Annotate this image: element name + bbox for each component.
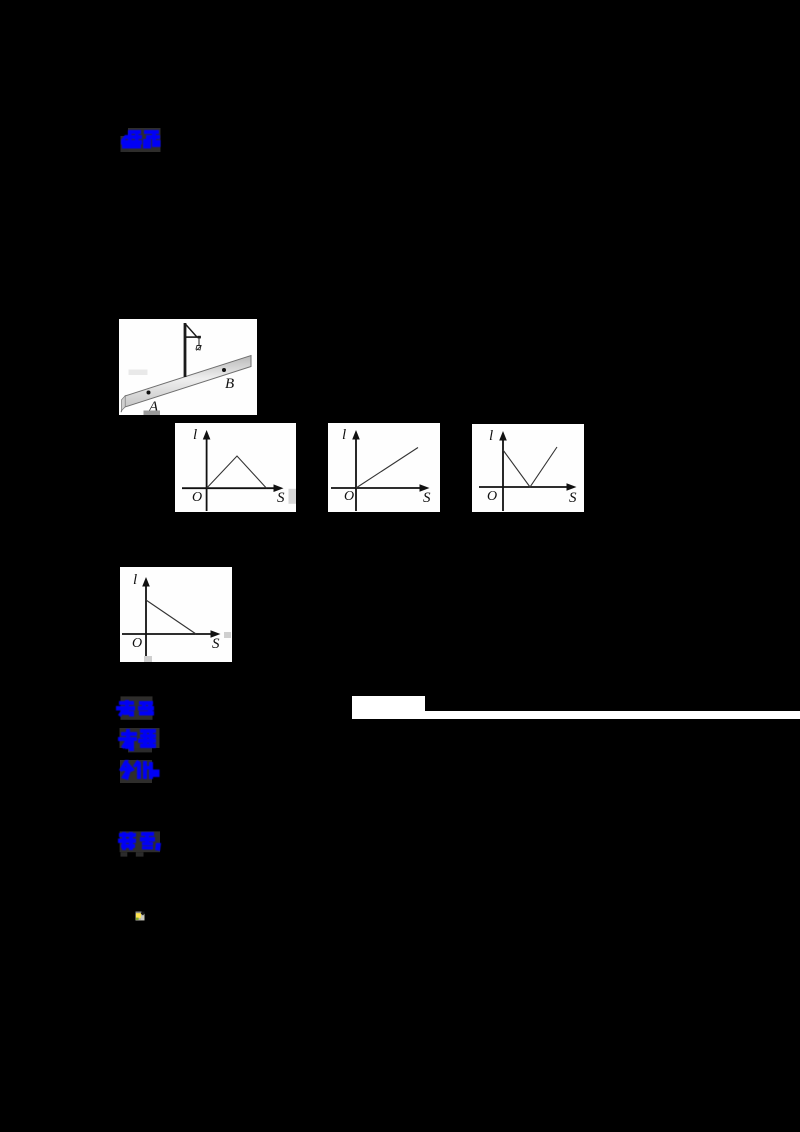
svg-text:O: O [344,489,354,504]
blue label 解答: [113,826,165,860]
graph A: triangle l-S graph [175,423,296,512]
svg-text:O: O [132,636,142,651]
figure: pole with hanging plumb on inclined plank, points A and B [119,319,257,415]
svg-text:l: l [489,428,493,444]
white background of figure [119,319,257,415]
hook/plumb with a label [196,346,201,351]
curve: V shape [503,447,557,487]
comma [155,843,161,851]
graph C: V-shaped l-S graph [472,424,584,512]
arm [186,336,201,338]
pole [184,323,187,377]
white answer underline strip [424,711,800,719]
gray tab below figure [144,411,161,416]
svg-text:l: l [133,572,137,588]
tiny broken-image icon [135,911,145,921]
svg-text:B: B [225,376,234,392]
gray nick right [289,489,297,504]
dot B [222,368,226,372]
blue label 分析: [113,755,165,787]
gray nick bottom [144,656,152,662]
v-axis [206,437,208,511]
string [198,338,200,346]
faint smudge left of pole [129,370,148,376]
svg-text:S: S [277,490,285,506]
blue label 1 (top, previous question's 点评 label) [116,124,168,158]
arm end block [198,336,201,339]
svg-text:S: S [212,636,220,652]
brace [186,325,197,337]
svg-text:O: O [487,489,497,504]
blue label 专题 [113,723,167,757]
curve: straight rising line [356,448,418,489]
blue label 考点 [113,692,163,724]
white answer box [352,696,425,719]
curve: triangle [207,456,267,488]
svg-text:O: O [192,490,202,505]
dot A [147,391,151,395]
graph B: rising line l-S graph [328,423,440,512]
gray nick right [224,632,231,638]
colon [153,770,160,778]
curve: falling line [146,600,196,634]
svg-text:l: l [342,427,346,443]
svg-text:S: S [569,490,577,506]
plank body [125,356,251,408]
svg-text:l: l [193,427,197,443]
h-axis [182,487,276,489]
graph D: falling line l-S graph [120,567,232,662]
svg-text:S: S [423,490,431,506]
left cut end of plank [122,396,126,411]
